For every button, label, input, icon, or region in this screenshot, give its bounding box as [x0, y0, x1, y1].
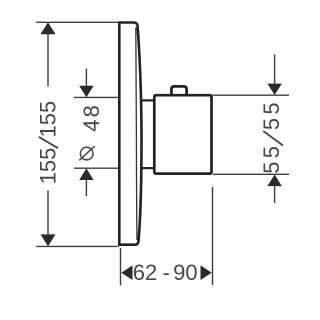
dim 155: extension line top — [36, 21, 118, 23]
dim 62-90: extension line right — [212, 187, 214, 285]
dim d48: arrow down — [79, 86, 93, 97]
dim 155: arrow up — [41, 22, 56, 34]
dim d48: arrow up — [79, 168, 93, 180]
dim d48: extension line top — [74, 96, 119, 98]
dim 62-90: arrow left — [121, 265, 132, 280]
dim 55: extension line top — [213, 94, 289, 96]
dim d48: diameter symbol — [80, 147, 93, 160]
svg-text:55: 55 — [259, 143, 284, 174]
dim 55: upper tail — [274, 55, 276, 85]
dim 155: arrow down — [41, 234, 56, 246]
svg-text:155: 155 — [36, 148, 61, 185]
knob body — [154, 95, 211, 173]
plate face inner line — [136, 28, 137, 241]
svg-text:62-90: 62-90 — [133, 260, 198, 285]
dim d48: extension line bottom — [74, 167, 119, 169]
dim 62-90: extension line left — [120, 248, 122, 285]
escutcheon plate (side view) — [119, 23, 141, 245]
svg-text:155: 155 — [36, 101, 61, 138]
sleeve bottom — [142, 167, 154, 169]
knob tab — [171, 86, 186, 94]
svg-text:55: 55 — [259, 99, 284, 130]
dim 55: lower tail — [274, 186, 276, 203]
dim 55: arrow down — [267, 84, 281, 95]
dim 55: arrow up — [267, 175, 281, 187]
dim 155: extension line bottom — [36, 245, 118, 247]
sleeve top — [142, 99, 154, 101]
dim 55: extension line bottom — [213, 173, 289, 175]
svg-text:48: 48 — [79, 103, 104, 132]
dim 155: dimension line upper segment — [47, 24, 49, 87]
dim 155: dimension line lower segment — [47, 191, 49, 246]
dim d48: upper tail — [85, 69, 87, 87]
dim d48: lower tail — [85, 180, 87, 196]
dim 62-90: arrow right — [201, 265, 212, 280]
